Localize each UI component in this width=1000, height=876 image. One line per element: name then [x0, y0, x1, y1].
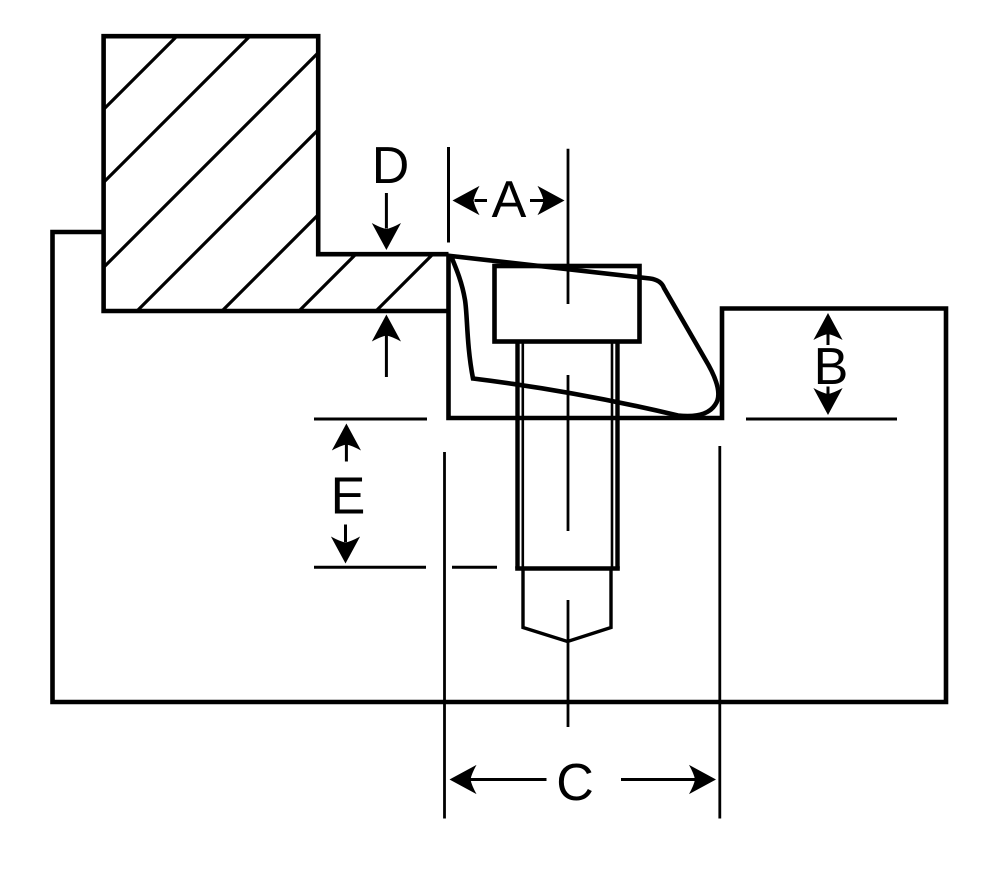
hatch line 2 [104, 36, 250, 182]
bolt tip [523, 569, 611, 642]
clamped block (hatched) outline [104, 36, 449, 311]
dim B upper arrow [827, 334, 830, 345]
svg-text:D: D [372, 137, 410, 195]
dim A extension line [447, 147, 450, 243]
dim B lower arrow [827, 387, 830, 395]
dim E lower extension line [314, 566, 426, 569]
svg-text:C: C [556, 754, 594, 812]
bolt centerline middle [567, 375, 570, 531]
clamp washer blob [451, 256, 718, 416]
thread major left [515, 342, 519, 569]
dim A right arrow [530, 199, 544, 202]
thread minor left [521, 342, 524, 569]
hatch line 6 [299, 254, 356, 311]
svg-text:A: A [492, 171, 527, 229]
bolt centerline lower [567, 600, 570, 727]
dim E lower extension line right segment [452, 566, 497, 569]
dim E upper arrow [345, 445, 348, 462]
hatch line 3 [104, 53, 319, 268]
dim A left arrow [475, 199, 488, 202]
dim C left extension line [443, 452, 446, 819]
dim D lower arrow [385, 336, 388, 378]
thread end line [515, 566, 620, 570]
hatch line 7 [376, 254, 433, 311]
hatch line 1 [104, 36, 177, 109]
bolt head [495, 266, 640, 342]
thread major right [615, 342, 619, 569]
svg-text:E: E [331, 468, 366, 526]
dim B lower extension line [746, 418, 897, 421]
dim C right arrow [621, 778, 695, 781]
svg-text:B: B [814, 338, 849, 396]
base body outline [53, 232, 947, 702]
hatch line 4 [137, 130, 318, 311]
dim C right extension line [718, 446, 721, 819]
dim D upper arrow [385, 193, 388, 229]
dim E upper extension line [314, 418, 427, 421]
dim E lower arrow [344, 525, 347, 543]
thread minor right [611, 342, 614, 569]
hatch line 5 [222, 215, 318, 311]
dim C left arrow [471, 778, 547, 781]
bolt centerline upper [567, 149, 570, 304]
